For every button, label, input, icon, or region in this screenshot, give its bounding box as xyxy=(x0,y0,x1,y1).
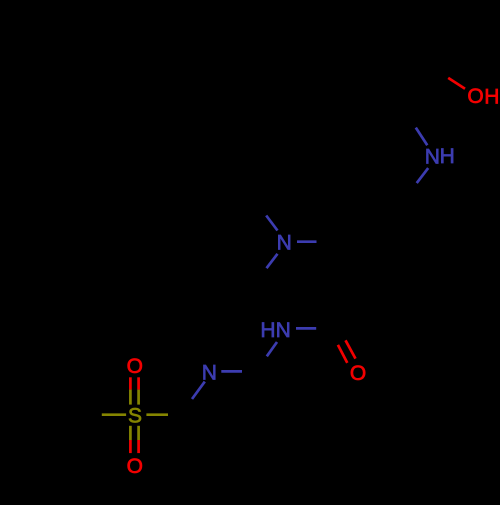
svg-text:S: S xyxy=(128,405,142,428)
svg-text:N: N xyxy=(202,361,217,384)
bond C-O of hydroxymethyl (red half) xyxy=(448,78,465,89)
double bond S=O top left line (sulfur half) xyxy=(129,390,132,405)
bond NH-C down (blue half) xyxy=(417,168,429,183)
bond N-C upper-left (blue half) xyxy=(266,216,277,231)
bond S-C right (sulfur half) xyxy=(146,413,168,416)
double bond C=O carbonyl line right (red half) xyxy=(346,340,356,358)
double bond S=O bottom right line (sulfur half) xyxy=(137,426,140,440)
svg-text:O: O xyxy=(127,355,143,378)
svg-text:O: O xyxy=(350,362,366,385)
double bond S=O top right line (sulfur half) xyxy=(137,390,140,405)
bond N-C lower-left (blue half) xyxy=(192,382,205,399)
svg-text:H: H xyxy=(440,145,455,168)
double bond S=O top left line (red half) xyxy=(129,377,132,389)
double bond S=O bottom left line (red half) xyxy=(129,440,132,453)
svg-text:N: N xyxy=(277,231,292,254)
svg-text:N: N xyxy=(276,319,291,342)
bond NH-C up (blue half) xyxy=(416,128,428,146)
bond N-C right (blue half) xyxy=(297,240,317,243)
bond HN-C lower-left (blue half) xyxy=(267,342,277,356)
double bond S=O bottom left line (sulfur half) xyxy=(129,426,132,440)
svg-text:O: O xyxy=(467,85,483,108)
svg-text:N: N xyxy=(425,145,440,168)
svg-text:H: H xyxy=(260,319,275,342)
double bond S=O top right line (red half) xyxy=(137,377,140,389)
svg-text:O: O xyxy=(127,455,143,478)
bond S-CH3 left (sulfur half) xyxy=(102,413,126,416)
double bond S=O bottom right line (red half) xyxy=(137,440,140,453)
bond N-C right (blue half) xyxy=(221,370,242,373)
bond HN-C right to carbonyl (blue half) xyxy=(296,327,316,330)
svg-text:H: H xyxy=(484,86,499,109)
bond N-C lower-left (blue half) xyxy=(267,254,278,268)
double bond C=O carbonyl line left (red half) xyxy=(338,345,347,363)
